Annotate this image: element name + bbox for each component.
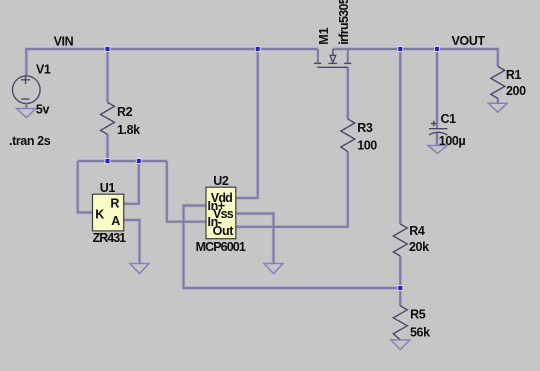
svg-text:R4: R4 bbox=[409, 224, 425, 238]
svg-text:R1: R1 bbox=[506, 68, 522, 82]
voltage source V1 bbox=[12, 75, 40, 103]
junction node rail-C1 bbox=[435, 47, 440, 52]
svg-text:1.8k: 1.8k bbox=[117, 123, 140, 137]
junction node rail-R2 bbox=[105, 47, 110, 52]
svg-text:VOUT: VOUT bbox=[452, 34, 486, 48]
resistor R4 bbox=[393, 224, 407, 256]
svg-text:K: K bbox=[95, 208, 104, 222]
U2 MCP6001 box bbox=[206, 187, 236, 239]
svg-text:U1: U1 bbox=[100, 181, 116, 195]
svg-text:R5: R5 bbox=[410, 307, 426, 321]
wire R2 bottom lead bbox=[106, 134, 108, 161]
junction node R2 bottom bbox=[105, 159, 110, 164]
svg-text:100: 100 bbox=[357, 138, 377, 152]
svg-text:5v: 5v bbox=[36, 103, 50, 117]
svg-text:20k: 20k bbox=[409, 240, 429, 254]
wire reference node horizontal bbox=[78, 160, 167, 162]
svg-text:A: A bbox=[111, 214, 120, 228]
wire R4 bottom to node bbox=[399, 256, 401, 306]
svg-text:R: R bbox=[110, 196, 119, 210]
junction node rail-Vdd bbox=[255, 47, 260, 52]
svg-text:200: 200 bbox=[506, 84, 526, 98]
svg-text:M1: M1 bbox=[317, 27, 331, 44]
svg-text:100µ: 100µ bbox=[439, 134, 466, 148]
svg-text:V1: V1 bbox=[36, 62, 51, 76]
wire K loop bbox=[78, 161, 93, 213]
junction node rail-R4 bbox=[398, 47, 403, 52]
resistor R2 bbox=[101, 102, 115, 134]
ground below U2 Vss bbox=[264, 264, 283, 274]
svg-text:R3: R3 bbox=[357, 121, 373, 135]
wire C1 bottom stub bbox=[436, 133, 438, 146]
svg-text:U2: U2 bbox=[213, 174, 229, 188]
ground below R1 bbox=[488, 103, 507, 112]
wire V1 bottom stub bbox=[25, 104, 27, 109]
wire In+ to divider bbox=[184, 206, 401, 289]
ground below U1 A pin bbox=[130, 264, 149, 274]
wire VIN rail right to R1 bbox=[333, 49, 498, 66]
svg-text:VIN: VIN bbox=[54, 34, 74, 48]
svg-text:R2: R2 bbox=[117, 105, 133, 119]
svg-text:irfru5305: irfru5305 bbox=[337, 0, 351, 45]
wire R1 bottom stub bbox=[497, 98, 499, 103]
mosfet M1 bbox=[317, 49, 319, 63]
wire gate to R3 top bbox=[347, 67, 349, 119]
svg-text:Out: Out bbox=[213, 224, 235, 238]
capacitor C1 plus sign bbox=[431, 121, 437, 127]
resistor R1 bbox=[491, 66, 505, 98]
svg-text:.tran 2s: .tran 2s bbox=[9, 134, 51, 148]
svg-text:56k: 56k bbox=[410, 326, 430, 340]
wire Vss to ground bbox=[236, 214, 274, 264]
ground below R5 bbox=[391, 340, 410, 350]
svg-text:MCP6001: MCP6001 bbox=[196, 240, 246, 254]
resistor R3 bbox=[341, 119, 355, 152]
junction node divider bbox=[398, 286, 403, 291]
wire node to In- bbox=[167, 161, 206, 222]
wire rail to C1 bbox=[436, 49, 438, 128]
capacitor C1 bbox=[429, 129, 448, 135]
U1 ZR431 box bbox=[93, 194, 124, 231]
wire Vdd to rail bbox=[236, 49, 258, 198]
ground below V1 bbox=[17, 109, 37, 118]
svg-text:ZR431: ZR431 bbox=[93, 231, 127, 245]
ground below C1 bbox=[428, 146, 447, 154]
wire R2 top lead bbox=[106, 49, 108, 102]
resistor R5 bbox=[393, 306, 407, 340]
junction node R pin bbox=[136, 159, 141, 164]
wire A pin to ground bbox=[124, 220, 140, 264]
wire rail to R4 bbox=[399, 49, 401, 224]
wire VIN rail left bbox=[26, 49, 318, 76]
svg-text:C1: C1 bbox=[441, 112, 457, 126]
wire R pin to node bbox=[124, 161, 139, 204]
wire Out to R3 bbox=[236, 152, 348, 227]
wire halo bbox=[26, 49, 498, 306]
